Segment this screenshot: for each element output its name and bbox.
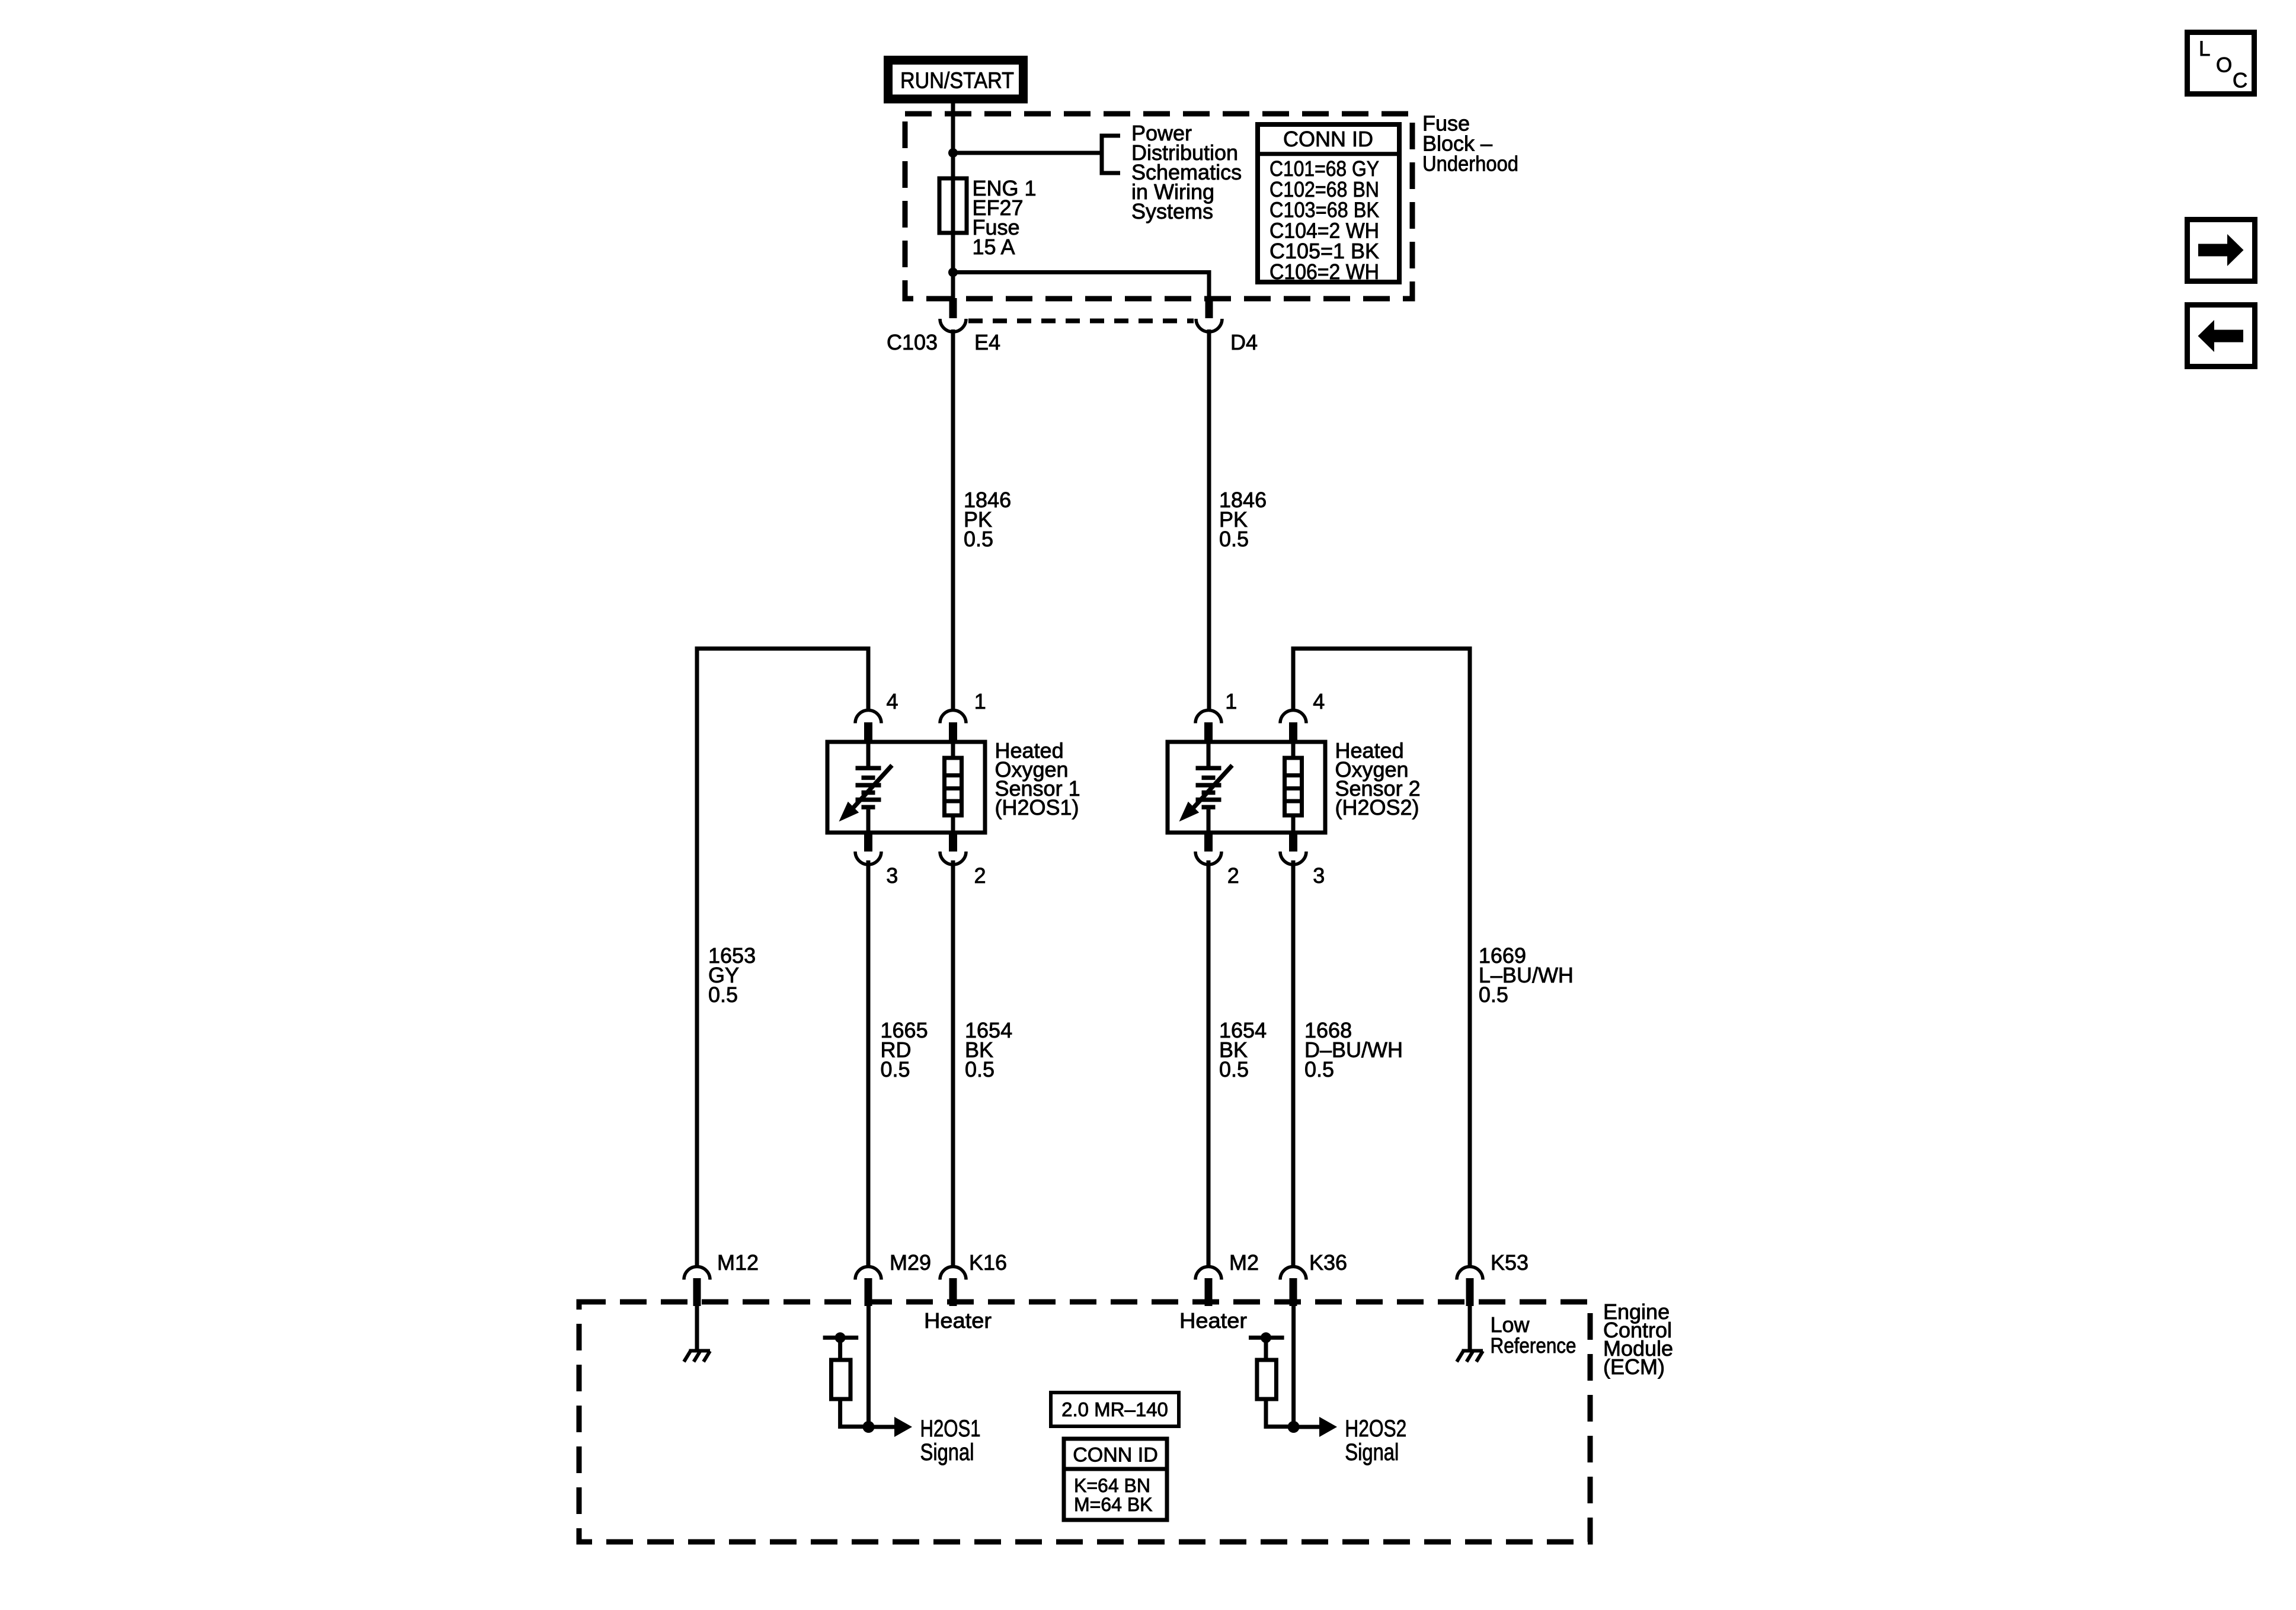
svg-text:0.5: 0.5 <box>965 1057 994 1081</box>
svg-text:0.5: 0.5 <box>1304 1057 1334 1081</box>
svg-text:M2: M2 <box>1229 1250 1259 1275</box>
svg-text:CONN ID: CONN ID <box>1073 1444 1158 1467</box>
svg-text:Heater: Heater <box>924 1308 992 1333</box>
svg-text:1: 1 <box>974 689 986 713</box>
svg-text:15 A: 15 A <box>973 235 1015 259</box>
svg-text:(H2OS1): (H2OS1) <box>995 795 1079 820</box>
svg-text:Signal: Signal <box>1345 1439 1399 1465</box>
svg-text:0.5: 0.5 <box>1479 982 1508 1007</box>
svg-text:CONN ID: CONN ID <box>1283 127 1373 151</box>
svg-text:0.5: 0.5 <box>964 527 993 551</box>
svg-text:3: 3 <box>1313 863 1325 888</box>
svg-text:(ECM): (ECM) <box>1603 1355 1665 1379</box>
svg-text:2: 2 <box>974 863 986 888</box>
svg-text:Underhood: Underhood <box>1422 151 1518 175</box>
svg-text:M12: M12 <box>717 1250 759 1275</box>
svg-text:H2OS1: H2OS1 <box>920 1416 981 1442</box>
svg-text:4: 4 <box>887 689 898 713</box>
svg-text:4: 4 <box>1313 689 1325 713</box>
svg-text:E4: E4 <box>974 330 1000 354</box>
svg-text:Signal: Signal <box>920 1439 974 1465</box>
svg-text:Systems: Systems <box>1131 199 1213 223</box>
svg-text:K36: K36 <box>1309 1250 1347 1275</box>
svg-text:RUN/START: RUN/START <box>900 69 1014 94</box>
svg-text:K=64 BN: K=64 BN <box>1074 1475 1150 1496</box>
svg-text:1: 1 <box>1225 689 1237 713</box>
svg-text:0.5: 0.5 <box>1219 527 1249 551</box>
svg-text:H2OS2: H2OS2 <box>1345 1416 1406 1442</box>
svg-text:K53: K53 <box>1491 1250 1528 1275</box>
svg-text:M29: M29 <box>890 1250 931 1275</box>
svg-text:(H2OS2): (H2OS2) <box>1335 795 1419 820</box>
svg-text:Reference: Reference <box>1491 1333 1576 1358</box>
svg-text:K16: K16 <box>969 1250 1007 1275</box>
svg-text:3: 3 <box>886 863 898 888</box>
svg-text:0.5: 0.5 <box>708 982 738 1007</box>
svg-text:O: O <box>2216 54 2232 77</box>
svg-text:0.5: 0.5 <box>1219 1057 1249 1081</box>
svg-text:Heater: Heater <box>1179 1308 1247 1333</box>
svg-text:C106=2 WH: C106=2 WH <box>1269 260 1379 284</box>
svg-text:D4: D4 <box>1230 330 1258 354</box>
svg-text:2.0 MR–140: 2.0 MR–140 <box>1061 1398 1168 1420</box>
svg-text:L: L <box>2199 37 2210 60</box>
svg-text:0.5: 0.5 <box>881 1057 910 1081</box>
svg-text:C: C <box>2233 69 2247 92</box>
svg-text:C103: C103 <box>887 330 938 354</box>
svg-text:M=64 BK: M=64 BK <box>1074 1494 1153 1515</box>
svg-text:2: 2 <box>1227 863 1239 888</box>
